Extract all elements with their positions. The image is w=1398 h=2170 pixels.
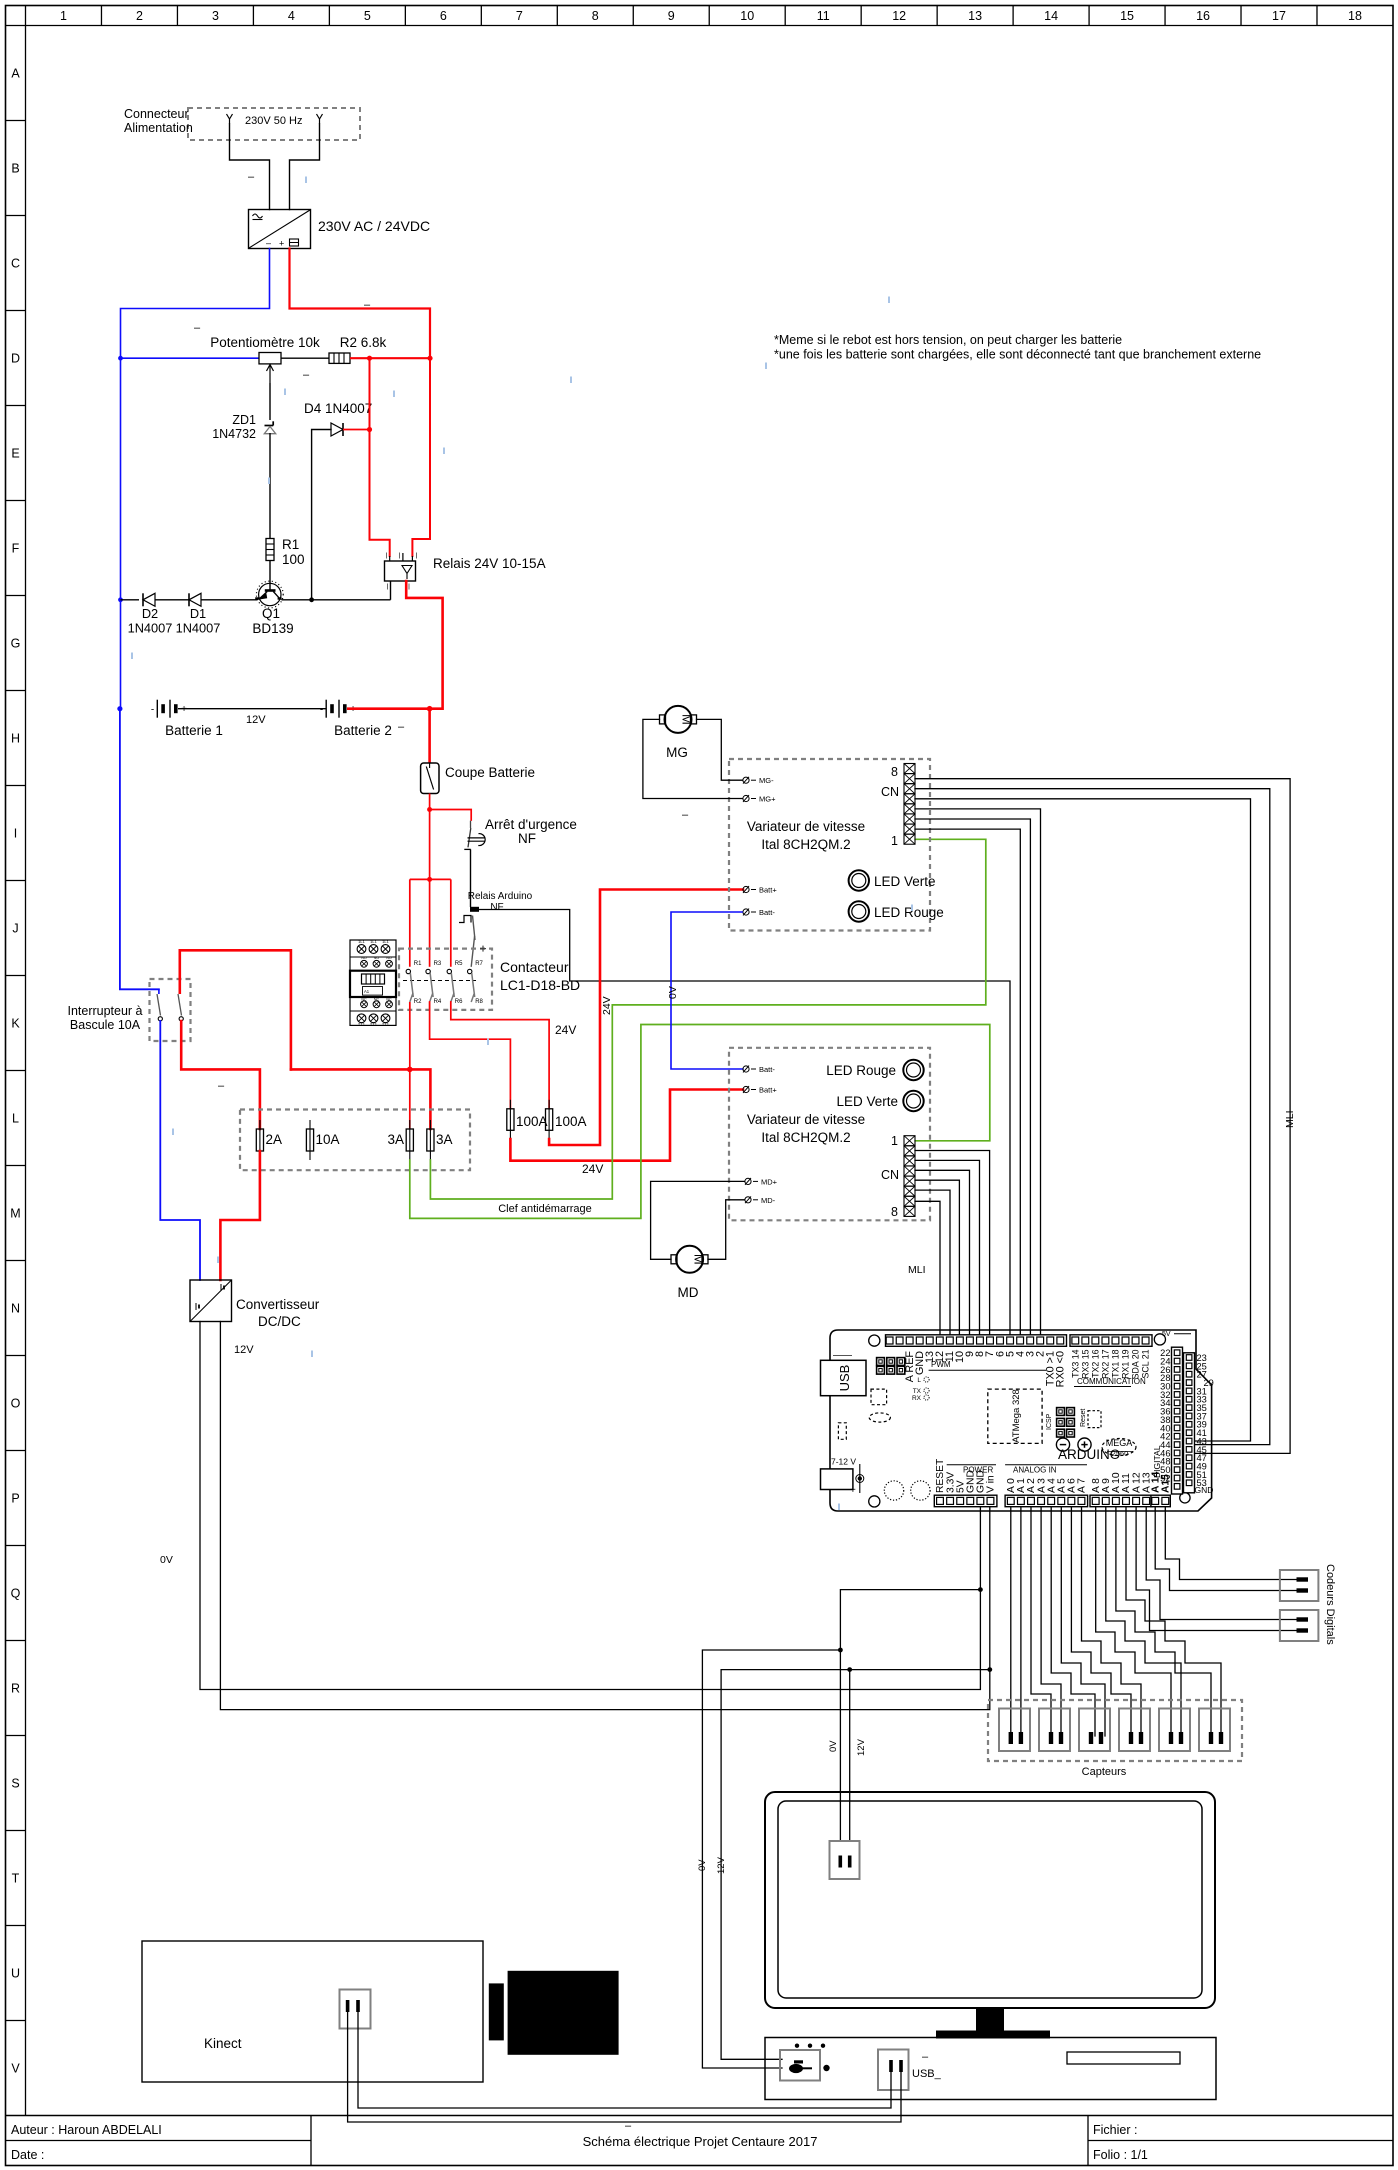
wire red x370 vertical to relay — [370, 358, 390, 556]
wire relay coil- to emitter line — [390, 581, 392, 600]
wire CN2 pin6 to arduino 11 — [915, 1190, 950, 1334]
wire battery1 to battery2 — [178, 708, 326, 710]
relay K1 tiny pin labels — [386, 553, 388, 559]
svg-text:R2: R2 — [414, 999, 422, 1005]
wire blue battery row to interrupteur — [120, 709, 159, 990]
wire CN1 pin5 to digital 45 — [915, 799, 1251, 1441]
wire CN1 pin2 to arduino 4 — [915, 829, 1020, 1334]
svg-text:1L1: 1L1 — [358, 939, 365, 944]
arduino ICSP header — [1057, 1408, 1065, 1416]
wire red contactor feed bus — [410, 878, 451, 880]
contactor pole R5/R6 — [447, 969, 451, 973]
wire pot wiper down to ZD1 — [269, 383, 271, 420]
node red below coupe batterie — [427, 807, 432, 812]
svg-text:1N4007: 1N4007 — [128, 621, 173, 636]
svg-text:K: K — [11, 1017, 20, 1031]
svg-text:10A: 10A — [316, 1132, 340, 1147]
LED D6 Rouge — [849, 901, 869, 921]
arduino MEGA 2560 logo — [1102, 1439, 1136, 1456]
wire red x430 vertical to relay — [412, 358, 430, 556]
svg-text:ICSP: ICSP — [1046, 1413, 1053, 1430]
wire CN1 pin4 to arduino 2 — [915, 809, 1041, 1334]
svg-text:9: 9 — [668, 9, 675, 23]
svg-text:NF: NF — [518, 831, 536, 846]
node red 3A fuse1 junction — [407, 1067, 413, 1073]
svg-text:–: – — [398, 721, 405, 733]
svg-text:MD-: MD- — [761, 1196, 776, 1205]
wire red 100A fuse1 to variateur2 Batt+ — [510, 1090, 743, 1161]
relay K1 24V box — [385, 561, 416, 581]
svg-text:–: – — [248, 171, 255, 183]
wire green 24V sense net G2 — [430, 839, 985, 1199]
wire A10 to capteur6 — [1116, 1507, 1211, 1736]
switch Coupe Batterie — [421, 763, 439, 794]
row tick lines — [6, 120, 26, 122]
svg-text:S: S — [11, 1777, 19, 1791]
wire blue bus to D2 — [121, 599, 140, 601]
computer keyboard unit box — [765, 2038, 1216, 2100]
svg-text:*une fois les batterie sont ch: *une fois les batterie sont chargées, el… — [774, 348, 1261, 362]
wire kinect usb line B — [348, 2012, 901, 2122]
svg-text:H: H — [11, 732, 20, 746]
svg-text:E: E — [11, 447, 19, 461]
svg-text:100: 100 — [282, 552, 305, 567]
node emitter D4 junction — [309, 597, 314, 602]
wire blue D-row bus to potentiometer — [121, 357, 260, 359]
wire MD- to motor right — [708, 1200, 744, 1260]
svg-text:RX2 17: RX2 17 — [1100, 1349, 1110, 1378]
svg-text:TX: TX — [913, 1388, 922, 1395]
contactor pole R1/R2 — [406, 969, 410, 973]
svg-text:5: 5 — [364, 9, 371, 23]
variateur2 pin Batt- — [743, 1066, 749, 1072]
svg-text:DIGITAL: DIGITAL — [1152, 1445, 1162, 1478]
arduino AREF 2x3 header — [877, 1358, 885, 1366]
svg-text:G: G — [11, 637, 21, 651]
contactor dashed box tick — [480, 948, 486, 950]
svg-text:12: 12 — [892, 9, 906, 23]
svg-text:–: – — [303, 369, 310, 381]
title block row dividers — [6, 2140, 312, 2142]
wire converter 12V output — [220, 1322, 989, 1710]
wire A15 to codeur1 — [1165, 1507, 1297, 1580]
wire arret durgence down to relais arduino — [470, 849, 472, 907]
svg-text:0V: 0V — [160, 1554, 173, 1566]
svg-text:D: D — [11, 352, 20, 366]
svg-text:Folio : 1/1: Folio : 1/1 — [1093, 2148, 1148, 2162]
svg-text:18: 18 — [1348, 9, 1362, 23]
motor MD — [676, 1246, 703, 1273]
node red contactor bus — [427, 877, 432, 882]
variateur1 dashed box — [729, 759, 930, 931]
svg-text:14: 14 — [1044, 9, 1058, 23]
svg-text:Arrêt d'urgence: Arrêt d'urgence — [485, 817, 577, 832]
wire blue interrupteur out to converter — [160, 1021, 200, 1280]
svg-text:1: 1 — [891, 1134, 898, 1148]
svg-text:Batt-: Batt- — [759, 1065, 775, 1074]
wire A0 to capteur1 — [1010, 1507, 1012, 1736]
wire 12V monitor drop — [849, 1670, 851, 1858]
svg-text:MG: MG — [666, 745, 688, 760]
arduino COMMUNICATION header — [1070, 1335, 1152, 1347]
svg-text:Batt+: Batt+ — [759, 1086, 777, 1095]
LED D8 Verte — [903, 1091, 923, 1111]
svg-text:B: B — [11, 162, 19, 176]
diode D1 1N4007 — [189, 593, 201, 606]
wire red R2 to bus corner — [350, 357, 430, 359]
svg-text:+: + — [850, 1485, 856, 1496]
monitor stand neck — [976, 2008, 1004, 2032]
svg-text:3A: 3A — [387, 1132, 404, 1147]
svg-text:7: 7 — [516, 9, 523, 23]
svg-text:Variateur de vitesse: Variateur de vitesse — [747, 819, 865, 834]
node GND header junction — [978, 1587, 983, 1592]
svg-text:230V 50 Hz: 230V 50 Hz — [245, 115, 302, 127]
wire red coupe to contactor bus — [429, 810, 431, 880]
contactor pole dashed crossline — [403, 980, 476, 982]
svg-text:R2 6.8k: R2 6.8k — [340, 335, 387, 350]
contactor device A1 box — [363, 987, 383, 996]
node red D4 junction — [367, 427, 372, 432]
wire red battery to coupe batterie — [428, 709, 431, 763]
wire A11 to capteur6 — [1126, 1507, 1221, 1736]
svg-text:12V: 12V — [246, 714, 266, 726]
svg-text:24V: 24V — [555, 1023, 576, 1037]
svg-text:15: 15 — [1120, 9, 1134, 23]
svg-text:A1: A1 — [364, 989, 370, 994]
wire red feed R3 — [429, 879, 431, 966]
node blue at battery row — [117, 706, 122, 711]
svg-text:13: 13 — [968, 9, 982, 23]
arduino ANALOG IN label and line — [1005, 1464, 1087, 1466]
capteur sensor box 3 — [1079, 1709, 1110, 1752]
pin Y right of J1 — [317, 114, 323, 124]
svg-text:Ital 8CH2QM.2: Ital 8CH2QM.2 — [761, 837, 850, 852]
svg-text:Convertisseur: Convertisseur — [236, 1297, 320, 1312]
variateur2 pin MD+ — [745, 1178, 751, 1184]
monitor screen inner — [778, 1801, 1202, 1998]
svg-text:–: – — [625, 2120, 632, 2132]
svg-text:24V: 24V — [582, 1162, 603, 1176]
svg-text:TX1 18: TX1 18 — [1110, 1349, 1120, 1377]
wire A12 to codeur2 — [1136, 1507, 1297, 1631]
resistor R1 100 — [266, 539, 274, 561]
svg-text:–: – — [682, 809, 689, 821]
variateur2 pin Batt+ — [743, 1086, 749, 1092]
contactor device coil hatch — [362, 974, 385, 984]
connector CN1 header — [904, 764, 915, 774]
svg-text:3A: 3A — [436, 1132, 453, 1147]
svg-text:2: 2 — [136, 9, 143, 23]
svg-text:U: U — [11, 1967, 20, 1981]
contactor device body — [350, 940, 396, 971]
capteur sensor box 1 — [999, 1709, 1030, 1752]
interrupteur right pole — [179, 950, 182, 994]
contactor device top screws — [357, 945, 366, 954]
fuse F4 3A — [429, 1120, 431, 1160]
node red at x370 — [367, 356, 372, 361]
svg-text:–: – — [364, 299, 371, 311]
border frame letter column line — [25, 6, 27, 2116]
svg-text:Potentiomètre 10k: Potentiomètre 10k — [210, 335, 320, 350]
node blue D-row — [118, 356, 123, 361]
svg-text:TX3 14: TX3 14 — [1070, 1349, 1080, 1377]
svg-text:I: I — [14, 827, 17, 841]
wire red to arret durgence — [430, 810, 472, 821]
arduino dotted circles — [884, 1481, 903, 1500]
svg-text:5V: 5V — [1162, 1331, 1171, 1338]
svg-text:8: 8 — [891, 1205, 898, 1219]
svg-text:3: 3 — [212, 9, 219, 23]
column tick lines — [100, 6, 102, 26]
svg-text:SDA 20: SDA 20 — [1131, 1349, 1141, 1379]
mouse dots — [795, 2044, 799, 2048]
svg-text:NC: NC — [386, 998, 392, 1002]
wire red R2 bottom to bus — [409, 1002, 411, 1069]
svg-text:230V AC / 24VDC: 230V AC / 24VDC — [318, 218, 430, 234]
svg-text:2560: 2560 — [1112, 1449, 1129, 1458]
arduino power jack plus pin — [859, 1464, 861, 1493]
connector J1 Connecteur Alimentation dashed box — [188, 108, 360, 140]
svg-text:ANALOG IN: ANALOG IN — [1013, 1466, 1057, 1475]
wire red main bus to 3A fuses — [291, 1069, 431, 1129]
svg-text:R5: R5 — [455, 961, 463, 967]
relay contact Relais Arduino NF — [470, 907, 479, 912]
codeur connector 2 — [1280, 1610, 1319, 1641]
wire A6 to capteur4 — [1071, 1507, 1131, 1736]
title block top line — [6, 2115, 1394, 2117]
svg-text:10: 10 — [740, 9, 754, 23]
arduino small dashed rect — [838, 1423, 846, 1440]
wire pot to R2 — [281, 357, 329, 359]
arduino ANALOG header A8-A15 — [1090, 1495, 1152, 1507]
border frame header row line — [6, 25, 1394, 27]
contactor poles dashed box — [399, 949, 492, 1010]
arduino DIGITAL double header right column — [1184, 1353, 1195, 1493]
arduino ATMega328 dashed box — [988, 1389, 1042, 1443]
LED D7 Rouge — [903, 1060, 923, 1080]
wire red relay coil+ down to battery — [406, 581, 442, 709]
wire green clef antidemarrage net G1 — [410, 1025, 990, 1219]
node Vin junction — [987, 1667, 992, 1672]
svg-text:R6: R6 — [455, 999, 463, 1005]
svg-text:Relais 24V 10-15A: Relais 24V 10-15A — [433, 556, 546, 571]
U1 battery glyph — [290, 239, 299, 246]
svg-text:Contacteur: Contacteur — [500, 959, 569, 975]
converter DC marks — [220, 1284, 222, 1291]
svg-text:Interrupteur à: Interrupteur à — [67, 1004, 142, 1018]
svg-text:V: V — [11, 2062, 20, 2076]
svg-text:100A: 100A — [516, 1114, 548, 1129]
wire blue left vertical bus — [120, 358, 122, 600]
wire R1 to Q1 — [269, 561, 271, 584]
svg-text:0V: 0V — [667, 986, 679, 999]
wire CN2 pin7 to arduino 12 — [915, 1201, 940, 1334]
svg-text:V in: V in — [986, 1475, 997, 1493]
switch Arret durgence NF — [470, 821, 472, 828]
variateur1 pin Batt- — [743, 909, 749, 915]
svg-text:Fichier :: Fichier : — [1093, 2123, 1137, 2137]
svg-text:D4 1N4007: D4 1N4007 — [304, 401, 372, 416]
svg-text:R4: R4 — [434, 999, 442, 1005]
svg-text:+: + — [279, 239, 284, 249]
svg-text:MD: MD — [678, 1285, 699, 1300]
svg-text:2A: 2A — [266, 1132, 283, 1147]
arduino POWER label and line — [947, 1464, 996, 1466]
svg-text:Batt-: Batt- — [759, 908, 775, 917]
svg-text:1: 1 — [60, 9, 67, 23]
wire relais arduino to Arduino pin5 — [479, 910, 1010, 1335]
node red at x430 — [427, 356, 432, 361]
LED D5 Verte — [849, 870, 869, 890]
svg-text:C: C — [11, 257, 20, 271]
svg-text:O: O — [11, 1397, 21, 1411]
svg-text:Schéma électrique Projet Centa: Schéma électrique Projet Centaure 2017 — [583, 2134, 818, 2149]
svg-text:17: 17 — [1272, 9, 1286, 23]
connector CN2 header — [904, 1136, 915, 1146]
svg-text:Batt+: Batt+ — [759, 886, 777, 895]
diode D4 1N4007 — [331, 423, 343, 436]
svg-text:Connecteur: Connecteur — [124, 107, 189, 121]
capteur sensor box 2 — [1039, 1709, 1070, 1752]
svg-text:M: M — [691, 1254, 706, 1265]
svg-text:24V: 24V — [601, 996, 613, 1015]
fuse F2 10A spare — [309, 1120, 311, 1160]
resistor R2 6.8k — [329, 353, 350, 363]
svg-text:L: L — [12, 1112, 19, 1126]
monitor outer body — [765, 1792, 1215, 2008]
wire red 2A fuse to converter — [220, 1151, 260, 1280]
svg-text:NO: NO — [374, 956, 380, 960]
svg-text:Variateur de vitesse: Variateur de vitesse — [747, 1112, 865, 1127]
svg-text:Clef antidémarrage: Clef antidémarrage — [498, 1203, 592, 1215]
variateur1 pin Batt+ — [743, 886, 749, 892]
arduino DIGITAL double header left column — [1172, 1347, 1183, 1494]
svg-text:100A: 100A — [555, 1114, 587, 1129]
arduino U3 board outline — [830, 1330, 1212, 1511]
svg-text:Q: Q — [11, 1587, 21, 1601]
svg-text:COMMUNICATION: COMMUNICATION — [1077, 1377, 1146, 1386]
capteur sensor box 4 — [1119, 1709, 1150, 1752]
svg-text:Reset: Reset — [1080, 1409, 1087, 1427]
arduino mounting holes — [869, 1335, 880, 1346]
svg-text:Alimentation: Alimentation — [124, 121, 193, 135]
svg-text:LED Verte: LED Verte — [874, 874, 936, 889]
mouse touchpad box — [780, 2050, 820, 2081]
contactor pole R7/R8 — [468, 969, 472, 973]
svg-text:Relais Arduino: Relais Arduino — [468, 891, 533, 902]
monitor power plug connector — [830, 1841, 860, 1879]
variateur1 pin MG- — [743, 777, 749, 783]
capteurs dashed box — [988, 1700, 1242, 1761]
svg-text:ZD1: ZD1 — [232, 413, 256, 427]
wire MD+ to motor left — [651, 1181, 744, 1259]
svg-text:2T1: 2T1 — [382, 1021, 390, 1026]
svg-text:11: 11 — [817, 9, 830, 23]
svg-text:Q1: Q1 — [262, 606, 280, 621]
svg-text:MEGA: MEGA — [1106, 1438, 1133, 1448]
wire A3 to capteur2 — [1041, 1507, 1061, 1736]
svg-text:N: N — [11, 1302, 20, 1316]
svg-text:1N4732: 1N4732 — [212, 427, 256, 441]
svg-text:T: T — [12, 1872, 20, 1886]
variateur1 pin MG+ — [743, 795, 749, 801]
USB plug on computer — [878, 2050, 909, 2091]
svg-text:-: - — [320, 705, 323, 716]
svg-text:Codeurs Digitals: Codeurs Digitals — [1324, 1564, 1336, 1645]
svg-text:-: - — [151, 705, 154, 716]
wire 12V distribution — [721, 1670, 990, 2060]
svg-text:LC1-D18-BD: LC1-D18-BD — [500, 977, 580, 993]
svg-text:R1: R1 — [414, 961, 422, 967]
wire A13 to codeur2 — [1146, 1507, 1297, 1620]
svg-text:–: – — [922, 2051, 929, 2063]
U1 diagonal — [249, 210, 310, 248]
svg-text:R: R — [11, 1682, 20, 1696]
wire red feed R1 — [409, 879, 411, 966]
svg-text:D2: D2 — [142, 606, 158, 621]
potentiometer P1 10k — [259, 353, 281, 364]
svg-text:USB: USB — [837, 1365, 852, 1392]
mouse symbol — [789, 2064, 803, 2073]
arduino top pin header PWM row — [886, 1335, 1067, 1347]
contactor device bottom screws — [361, 1001, 368, 1008]
svg-text:–: – — [218, 1080, 225, 1092]
kinect plug connector — [340, 1990, 371, 2029]
wire red R4 bottom to 100A fuse1 — [430, 1002, 511, 1109]
arduino POWER header — [934, 1495, 997, 1507]
wire D4 anode vertical — [312, 430, 331, 600]
wire red interrupteur out to 2A fuse — [181, 1021, 260, 1129]
svg-text:1L1: 1L1 — [382, 939, 389, 944]
node red battery junction — [427, 706, 433, 712]
wire D2 to D1 — [155, 599, 189, 601]
svg-text:Ital 8CH2QM.2: Ital 8CH2QM.2 — [761, 1130, 850, 1145]
svg-text:ATMega 328: ATMega 328 — [1011, 1389, 1022, 1443]
wire ZD1 to R1 — [269, 433, 271, 538]
svg-text:MG-: MG- — [759, 776, 774, 785]
converter U2 DC/DC box — [190, 1280, 232, 1322]
wire 0V mouse line — [702, 1650, 840, 2068]
svg-text:BD139: BD139 — [252, 621, 293, 636]
svg-text:USB_: USB_ — [912, 2068, 942, 2080]
switch Interrupteur a Bascule dashed box — [150, 979, 191, 1041]
svg-text:4: 4 — [288, 9, 295, 23]
svg-text:P: P — [11, 1492, 19, 1506]
svg-text:J: J — [12, 922, 18, 936]
transistor Q1 BD139 — [256, 581, 283, 608]
fuse F5 100A — [509, 1100, 511, 1140]
svg-text:12V: 12V — [856, 1738, 867, 1756]
wire CN2 pin2 to arduino 7 — [915, 1151, 990, 1335]
fuse F1 2A — [259, 1120, 261, 1160]
wire A5 to capteur3 — [1061, 1507, 1105, 1736]
svg-text:1N4007: 1N4007 — [176, 621, 221, 636]
svg-text:Kinect: Kinect — [204, 2036, 242, 2051]
node blue at diode row — [118, 597, 123, 602]
wire red interrupteur top feed — [180, 950, 291, 1069]
relay K1 diode symbol — [402, 566, 412, 580]
pin Y left of J1 — [227, 114, 233, 124]
svg-text:8: 8 — [891, 765, 898, 779]
fuse F3 3A — [409, 1120, 411, 1160]
interrupteur left pole — [158, 989, 160, 994]
wire red D4 to x370 — [343, 429, 370, 431]
svg-text:CN: CN — [881, 1168, 899, 1182]
svg-text:D1: D1 — [190, 606, 206, 621]
zener diode ZD1 1N4732 — [265, 425, 274, 427]
svg-text:NC: NC — [361, 998, 367, 1002]
